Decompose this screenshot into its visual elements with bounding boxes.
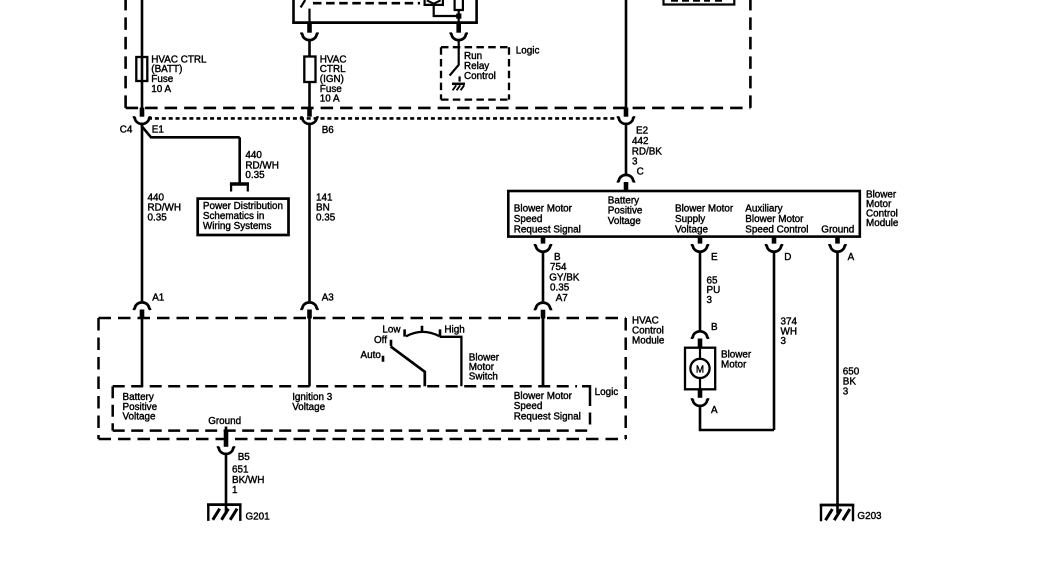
svg-text:Module: Module	[632, 336, 665, 347]
svg-text:10 A: 10 A	[151, 84, 171, 95]
svg-text:C4: C4	[120, 125, 133, 136]
svg-text:C: C	[637, 167, 644, 178]
svg-text:1: 1	[232, 485, 238, 496]
svg-text:Module: Module	[866, 218, 899, 229]
svg-text:Motor: Motor	[721, 360, 747, 371]
svg-text:Control: Control	[464, 71, 496, 82]
svg-text:G203: G203	[857, 511, 882, 522]
svg-text:B5: B5	[238, 452, 251, 463]
svg-text:E: E	[711, 252, 718, 263]
svg-text:G201: G201	[246, 511, 271, 522]
svg-text:M: M	[696, 364, 704, 375]
svg-text:3: 3	[843, 386, 849, 397]
svg-text:Logic: Logic	[516, 46, 540, 57]
svg-text:0.35: 0.35	[316, 213, 336, 224]
svg-text:Voltage: Voltage	[292, 402, 325, 413]
svg-text:3: 3	[781, 336, 787, 347]
svg-text:Voltage: Voltage	[123, 412, 156, 423]
svg-text:A7: A7	[556, 293, 568, 304]
svg-text:Logic: Logic	[595, 387, 619, 398]
svg-text:D: D	[784, 252, 791, 263]
svg-text:3: 3	[707, 295, 713, 306]
svg-text:E2: E2	[636, 126, 648, 137]
svg-text:Ground: Ground	[821, 224, 854, 235]
svg-text:Auto: Auto	[361, 350, 382, 361]
svg-text:E1: E1	[152, 125, 165, 136]
svg-text:A3: A3	[322, 293, 335, 304]
svg-text:Speed Control: Speed Control	[745, 224, 808, 235]
svg-text:442: 442	[632, 136, 648, 147]
svg-text:0.35: 0.35	[148, 213, 168, 224]
svg-text:Positive: Positive	[608, 206, 643, 217]
svg-text:Voltage: Voltage	[675, 224, 708, 235]
svg-text:Ground: Ground	[208, 416, 241, 427]
svg-text:Low: Low	[382, 324, 401, 335]
svg-text:Voltage: Voltage	[608, 216, 641, 227]
svg-text:Off: Off	[374, 335, 387, 346]
svg-text:A: A	[848, 252, 855, 263]
svg-text:High: High	[444, 324, 464, 335]
svg-text:B6: B6	[322, 125, 335, 136]
svg-text:A1: A1	[152, 293, 165, 304]
svg-text:Switch: Switch	[469, 372, 498, 383]
svg-text:Wiring Systems: Wiring Systems	[203, 221, 272, 232]
svg-text:Request Signal: Request Signal	[514, 224, 581, 235]
svg-text:Request Signal: Request Signal	[514, 411, 581, 422]
svg-text:B: B	[711, 322, 718, 333]
svg-text:0.35: 0.35	[245, 170, 265, 181]
svg-text:A: A	[711, 405, 718, 416]
svg-text:651: 651	[232, 464, 249, 475]
svg-text:10 A: 10 A	[320, 94, 340, 105]
